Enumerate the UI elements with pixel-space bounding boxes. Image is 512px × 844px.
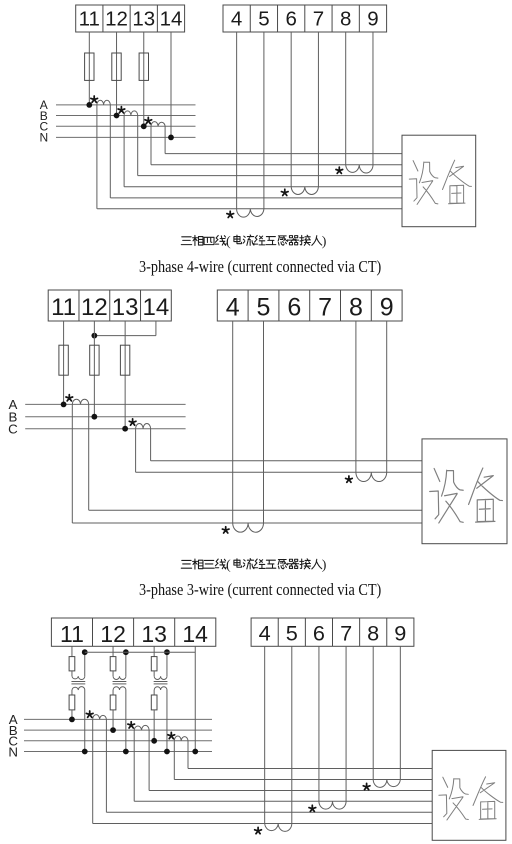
svg-text:): ): [322, 235, 327, 250]
svg-text:3-phase 3-wire (current connec: 3-phase 3-wire (current connected via CT…: [139, 580, 381, 599]
svg-text:14: 14: [182, 621, 208, 647]
svg-text:6: 6: [287, 293, 301, 321]
svg-text:6: 6: [285, 7, 296, 30]
svg-text:7: 7: [340, 620, 352, 645]
svg-text:6: 6: [313, 620, 325, 645]
svg-text:12: 12: [100, 621, 126, 647]
svg-text:7: 7: [313, 7, 324, 30]
svg-text:9: 9: [380, 293, 394, 321]
svg-text:C: C: [8, 422, 18, 437]
svg-text:9: 9: [394, 620, 406, 645]
svg-text:14: 14: [160, 7, 183, 30]
svg-text:5: 5: [257, 293, 271, 321]
svg-text:(: (: [226, 558, 231, 573]
svg-text:11: 11: [51, 294, 76, 321]
svg-text:13: 13: [132, 7, 155, 30]
svg-text:8: 8: [340, 7, 351, 30]
svg-text:(: (: [226, 235, 231, 250]
svg-text:N: N: [8, 744, 18, 759]
svg-text:5: 5: [258, 7, 269, 30]
svg-text:11: 11: [79, 7, 100, 30]
svg-text:4: 4: [226, 293, 240, 321]
svg-text:9: 9: [367, 7, 378, 30]
svg-text:13: 13: [112, 294, 139, 321]
svg-text:8: 8: [367, 620, 379, 645]
svg-text:11: 11: [60, 621, 84, 647]
svg-text:5: 5: [286, 620, 298, 645]
svg-text:4: 4: [259, 620, 271, 645]
svg-text:8: 8: [349, 293, 363, 321]
svg-text:12: 12: [105, 7, 128, 30]
svg-text:): ): [322, 558, 327, 573]
svg-text:N: N: [39, 131, 48, 145]
svg-text:3-phase 4-wire (current connec: 3-phase 4-wire (current connected via CT…: [139, 257, 381, 276]
svg-text:12: 12: [81, 294, 108, 321]
svg-text:7: 7: [318, 293, 332, 321]
svg-text:14: 14: [143, 294, 170, 321]
svg-text:4: 4: [231, 7, 242, 30]
svg-text:13: 13: [141, 621, 167, 647]
